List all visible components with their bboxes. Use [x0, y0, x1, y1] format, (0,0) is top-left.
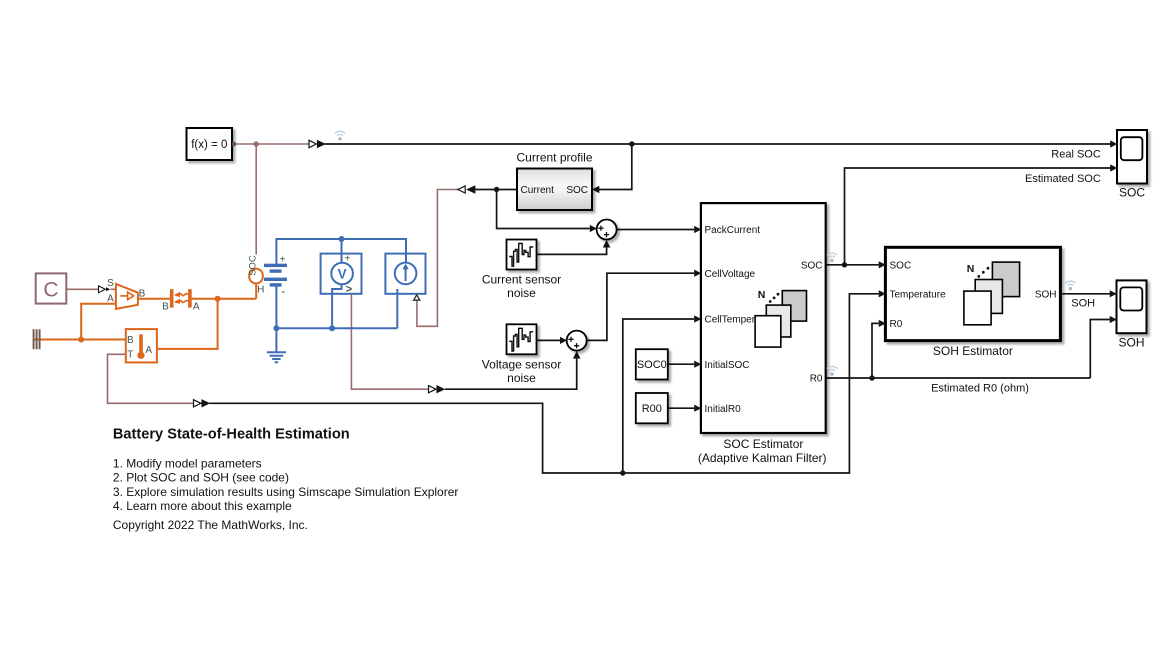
- svg-text:S: S: [107, 278, 114, 289]
- temperature sensor block (B/T/A thermometer): [126, 329, 157, 362]
- wire: SOH output to scope: [1060, 293, 1110, 295]
- svg-text:Estimated R0 (ohm): Estimated R0 (ohm): [931, 382, 1029, 394]
- wire: maroon drop from junction down to battery SOC label: [255, 144, 257, 255]
- converter arrow pair on measured temperature line: [194, 399, 211, 407]
- svg-text:SOC: SOC: [890, 261, 912, 272]
- node: orange junction at battery H branch: [215, 296, 221, 302]
- svg-text:Battery State-of-Health Estima: Battery State-of-Health Estimation: [113, 426, 350, 442]
- svg-text:SOC: SOC: [801, 260, 823, 271]
- arrow into current sum left: [590, 225, 597, 232]
- wire: measured voltage (black) to voltage sum bottom: [445, 359, 577, 390]
- svg-text:B: B: [127, 335, 134, 346]
- svg-text:SOC0: SOC0: [637, 359, 667, 371]
- wire: Current profile output to converter arrows: [475, 189, 517, 191]
- node: junction on solver line above battery SOC: [254, 141, 259, 146]
- svg-text:Estimated SOC: Estimated SOC: [1025, 173, 1101, 185]
- svg-text:A: A: [107, 294, 114, 305]
- block Voltage sensor noise: [507, 324, 537, 354]
- svg-text:2. Plot SOC and SOH (see code): 2. Plot SOC and SOH (see code): [113, 471, 289, 485]
- svg-text:noise: noise: [507, 371, 536, 385]
- svg-text:N: N: [758, 289, 766, 301]
- wire: heat source B to conductive heat transfer B (orange): [138, 298, 170, 300]
- svg-text:-: -: [281, 284, 285, 298]
- svg-text:A: A: [145, 345, 152, 356]
- node: blue junction voltage sensor bottom: [329, 325, 335, 331]
- svg-text:noise: noise: [507, 286, 536, 300]
- svg-text:+: +: [344, 254, 350, 265]
- wire: current command (maroon) from converter arrows to controlled current source port: [417, 190, 458, 327]
- wire: battery negative down to ground (blue): [275, 286, 277, 353]
- svg-text:InitialR0: InitialR0: [705, 404, 742, 415]
- svg-text:B: B: [139, 288, 146, 299]
- battery cell plates: [264, 254, 287, 298]
- wire: bottom rail to sensors (blue): [276, 327, 397, 329]
- port stub on f(x)=0: [232, 142, 236, 146]
- svg-text:H: H: [257, 285, 264, 296]
- wire: current sum output to PackCurrent: [617, 229, 695, 231]
- arrows into SOH scope: [1110, 290, 1117, 297]
- arrow into voltage sum left: [560, 337, 567, 344]
- svg-text:SOH: SOH: [1035, 289, 1057, 300]
- controlled current source block: [385, 254, 425, 301]
- SOH Estimator block: [885, 247, 1060, 340]
- svg-text:>: >: [346, 283, 352, 295]
- sum block (current + noise): [597, 220, 617, 240]
- svg-text:R00: R00: [642, 403, 662, 415]
- wire: conductive heat transfer A to battery H port (orange): [192, 283, 257, 298]
- conductive heat transfer block: [162, 289, 200, 312]
- svg-text:1. Modify model parameters: 1. Modify model parameters: [113, 457, 262, 471]
- svg-text:Voltage sensor: Voltage sensor: [482, 357, 561, 371]
- wire: measured temperature (black) across bottom to SOH Temperature: [210, 294, 879, 473]
- svg-text:SOC: SOC: [1119, 185, 1145, 199]
- converter arrow pair on Real SOC line: [309, 140, 326, 148]
- node: junction feeding Current profile SOC input: [629, 141, 634, 146]
- wire: estimated R0 up into SOH scope second input: [1090, 320, 1110, 379]
- wire: current source bottom connection (blue): [396, 289, 398, 328]
- svg-text:Current sensor: Current sensor: [482, 272, 561, 286]
- wire: temperature sensor A up to thermal junction (orange): [157, 299, 218, 349]
- SOC scope block: [1117, 130, 1147, 184]
- wire: voltage sum output to CellVoltage: [587, 273, 695, 340]
- port arrow into Current profile SOC input (points left): [592, 186, 599, 194]
- wire: battery positive rail to sensors (blue): [276, 239, 406, 265]
- streaming badge on Real SOC line: [335, 131, 345, 140]
- SOC Estimator block: [701, 203, 826, 433]
- converter arrow pair on current command (points left): [458, 185, 476, 193]
- wire: branch up to heat source port A (orange): [81, 304, 116, 340]
- wire: voltage sensor noise into sum left: [537, 339, 561, 341]
- svg-text:V: V: [338, 267, 347, 282]
- wire: thermal reference to temperature sensor port B (orange): [34, 339, 126, 341]
- svg-text:B: B: [162, 301, 169, 312]
- svg-text:SOC Estimator: SOC Estimator: [723, 437, 803, 451]
- wire: current sensor noise into sum bottom: [537, 248, 607, 255]
- wire: voltage sensor PS output (maroon) down then right to converter arrows: [351, 294, 428, 389]
- subsystem Current profile: [517, 169, 592, 211]
- voltage sensor block V: [321, 254, 362, 296]
- node: blue junction battery negative: [273, 325, 279, 331]
- wire: C constant to S port (maroon, two segments around arrow pair): [66, 288, 116, 290]
- streaming badge on SOH output: [1065, 281, 1075, 290]
- node: junction on SOC estimate: [842, 262, 847, 267]
- svg-text:Current profile: Current profile: [516, 151, 592, 165]
- svg-text:InitialSOC: InitialSOC: [705, 360, 750, 371]
- svg-text:R0: R0: [890, 319, 903, 330]
- wire: solver output (PS maroon) from f(x)=0 to converter arrows: [232, 143, 309, 145]
- node: junction on current command line: [494, 187, 499, 192]
- svg-text:T: T: [127, 350, 133, 361]
- svg-text:R0: R0: [810, 374, 823, 385]
- svg-text:SOH: SOH: [1071, 297, 1095, 309]
- wire: SOC estimate to SOH estimator SOC input: [826, 264, 879, 266]
- svg-text:Temperature: Temperature: [890, 289, 947, 300]
- thermal reference (left): [34, 329, 40, 349]
- constant block SOC0: [636, 349, 668, 379]
- battery SOC port stub (orange oval with rotated label): [247, 255, 264, 296]
- svg-text:+: +: [280, 254, 286, 265]
- wire: branch down into current sum: [497, 190, 590, 229]
- svg-text:Real SOC: Real SOC: [1051, 148, 1101, 160]
- wire: Real SOC signal line to scope (black): [325, 143, 1111, 145]
- converter arrow pair C to S: [99, 286, 111, 293]
- wire: Estimated SOC up and right to scope: [845, 168, 1111, 265]
- constant block C: [36, 273, 67, 303]
- streaming badge on R0 estimate: [827, 366, 837, 375]
- sum block (voltage + noise): [567, 331, 587, 351]
- SOH scope block: [1117, 280, 1147, 333]
- wire: R00 to InitialR0: [668, 407, 694, 409]
- arrow into voltage sum bottom: [573, 351, 581, 359]
- svg-text:f(x) = 0: f(x) = 0: [191, 139, 227, 151]
- arrow into current sum bottom: [603, 240, 611, 248]
- svg-text:Current: Current: [521, 185, 555, 196]
- wire: temperature sensor T output (maroon) down and right to converter arrows: [108, 354, 194, 403]
- svg-text:4. Learn more about this examp: 4. Learn more about this example: [113, 499, 292, 513]
- arrows into SOC scope: [1110, 140, 1117, 147]
- svg-text:SOC: SOC: [247, 255, 258, 276]
- svg-text:Copyright 2022 The MathWorks,: Copyright 2022 The MathWorks, Inc.: [113, 518, 308, 532]
- wire: voltage sensor + drop from top rail (blue): [341, 239, 343, 263]
- wire: SOC0 to InitialSOC: [668, 363, 694, 365]
- heat source U1 (trapezoid with arrow): [107, 278, 146, 309]
- wire: branch up into SOH estimator R0 input: [872, 323, 879, 378]
- svg-text:3. Explore simulation results: 3. Explore simulation results using Sims…: [113, 485, 459, 499]
- wire: branch up into CellTemper: [623, 319, 694, 473]
- Kalman icon inside SOC Estimator: [755, 291, 806, 348]
- node: junction on R0 line: [869, 375, 874, 380]
- port arrows into SOH Estimator: [879, 261, 886, 327]
- svg-text:PackCurrent: PackCurrent: [705, 225, 761, 236]
- svg-text:A: A: [193, 302, 200, 313]
- converter arrow pair on measured voltage line: [429, 385, 446, 393]
- node: junction on temperature line: [620, 470, 625, 475]
- electrical ground: [267, 352, 286, 362]
- svg-text:(Adaptive Kalman Filter): (Adaptive Kalman Filter): [698, 451, 827, 465]
- Kalman icon inside SOH Estimator: [964, 262, 1020, 325]
- constant block R00: [636, 393, 668, 423]
- block Current sensor noise: [507, 240, 537, 270]
- node: blue junction on top rail: [339, 236, 345, 242]
- svg-text:SOH Estimator: SOH Estimator: [933, 344, 1013, 358]
- solver block f(x)=0: [187, 128, 233, 160]
- svg-text:SOH: SOH: [1118, 336, 1144, 350]
- streaming badge on SOC estimate: [827, 253, 837, 262]
- svg-text:CellVoltage: CellVoltage: [705, 269, 756, 280]
- wire: drop into Current profile SOC input: [599, 144, 632, 190]
- svg-text:C: C: [43, 279, 58, 302]
- svg-text:N: N: [967, 263, 975, 275]
- wire: R0 estimate line to the right: [826, 377, 1091, 379]
- port arrows into SOC Estimator: [694, 226, 701, 412]
- svg-text:SOC: SOC: [566, 185, 588, 196]
- node: orange junction on thermal reference line: [78, 337, 84, 343]
- wire: voltage sensor - connection step (blue): [332, 284, 341, 328]
